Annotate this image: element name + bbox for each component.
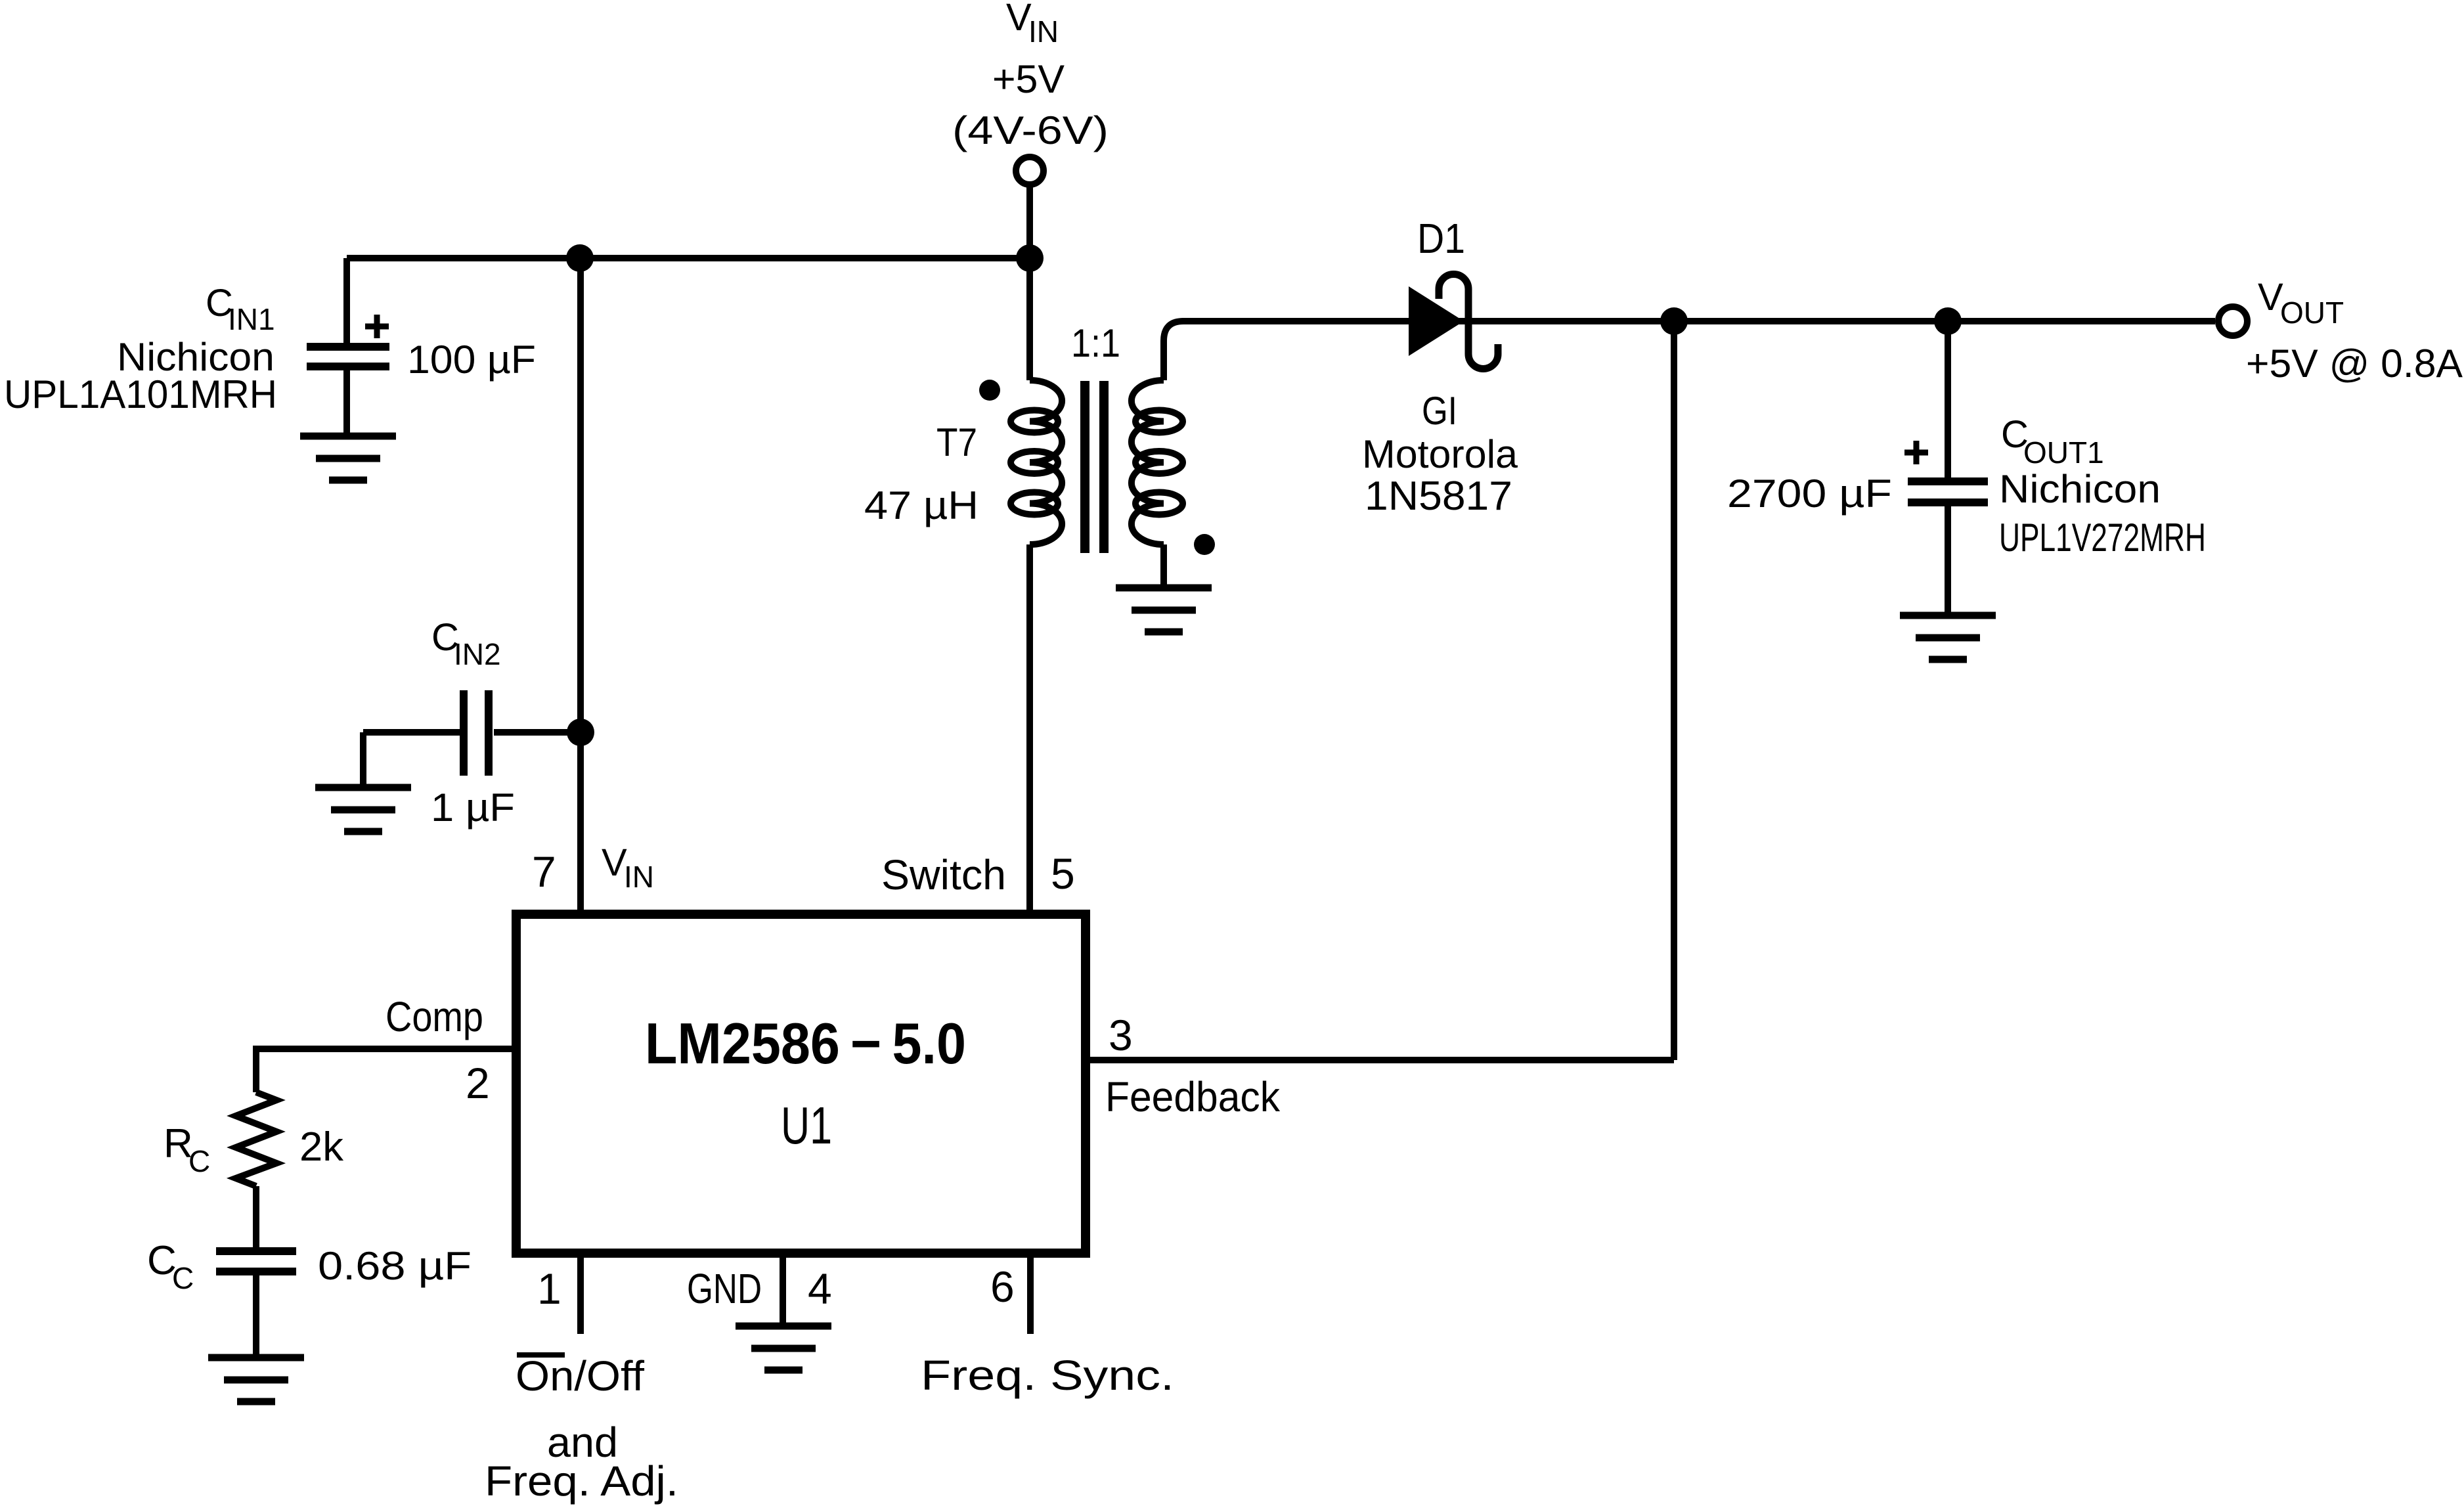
svg-text:Freq. Sync.: Freq. Sync. — [921, 1352, 1174, 1399]
COUT1 plus sign — [1904, 441, 1928, 464]
svg-text:Nichicon: Nichicon — [1999, 467, 2161, 511]
capacitor CIN1 plates — [307, 347, 389, 366]
wire pin 1 stub — [577, 1253, 584, 1334]
node junction dot (CIN2 tap) — [567, 719, 594, 746]
label CIN2 — [431, 616, 501, 671]
ground (below COUT1) — [1900, 615, 1996, 659]
capacitor CIN1 lead — [343, 258, 350, 344]
svg-text:LM2586 − 5.0: LM2586 − 5.0 — [645, 1011, 966, 1076]
ground (below CIN2) — [315, 787, 411, 831]
label RC — [164, 1121, 210, 1178]
svg-text:2700 µF: 2700 µF — [1727, 472, 1892, 516]
wire pin 4 GND stub — [780, 1253, 786, 1323]
svg-text:1 µF: 1 µF — [431, 786, 515, 830]
svg-text:IN2: IN2 — [454, 637, 501, 671]
terminal VIN — [1016, 157, 1044, 185]
wire output rail — [1182, 318, 2215, 324]
svg-text:Motorola: Motorola — [1362, 432, 1518, 476]
wire COUT1 to ground — [1945, 502, 1951, 612]
svg-text:IN: IN — [624, 860, 654, 894]
svg-text:GI: GI — [1422, 389, 1457, 433]
svg-text:3: 3 — [1109, 1011, 1133, 1059]
ground (below CC) — [208, 1358, 304, 1402]
svg-text:0.68 µF: 0.68 µF — [318, 1244, 472, 1288]
svg-text:1: 1 — [537, 1264, 561, 1313]
svg-text:2k: 2k — [299, 1124, 344, 1170]
svg-text:4: 4 — [808, 1264, 832, 1313]
diode D1 triangle — [1409, 286, 1464, 356]
wire VIN terminal to rail and transformer — [1026, 187, 1033, 380]
svg-text:+5V: +5V — [992, 57, 1065, 101]
svg-text:Freq. Adj.: Freq. Adj. — [485, 1457, 678, 1505]
wire pin 6 stub — [1027, 1253, 1034, 1334]
node junction dot (VIN drop) — [1016, 244, 1044, 272]
svg-text:C: C — [172, 1261, 194, 1295]
svg-text:D1: D1 — [1417, 215, 1465, 262]
svg-text:T7: T7 — [936, 420, 977, 464]
svg-text:On/Off: On/Off — [516, 1352, 644, 1400]
wire pin7 vertical (rail to IC) — [577, 258, 584, 914]
label VOUT — [2258, 276, 2344, 330]
svg-text:Comp: Comp — [385, 993, 483, 1040]
label COUT1 — [2001, 413, 2104, 470]
svg-text:UPL1A101MRH: UPL1A101MRH — [4, 372, 277, 416]
capacitor COUT1 plates — [1908, 481, 1988, 502]
CIN1 plus sign — [365, 315, 389, 338]
transformer T7 primary winding — [1011, 380, 1062, 544]
node junction dot (feedback tap) — [1660, 307, 1688, 335]
svg-text:2: 2 — [466, 1059, 490, 1107]
svg-text:IN: IN — [1028, 14, 1059, 49]
wire primary bottom to switch pin 5 — [1026, 544, 1033, 914]
ground (below CIN1) — [300, 436, 396, 480]
capacitor CIN2 wires — [494, 729, 581, 736]
wire comp pin 2 — [256, 1049, 516, 1092]
svg-text:+5V @ 0.8A: +5V @ 0.8A — [2246, 342, 2463, 386]
svg-text:OUT1: OUT1 — [2023, 435, 2104, 470]
svg-text:C: C — [188, 1144, 210, 1178]
resistor RC — [236, 1092, 276, 1186]
capacitor CIN2 plates — [464, 690, 489, 776]
svg-text:UPL1V272MRH: UPL1V272MRH — [1999, 516, 2206, 560]
wire top input rail — [347, 255, 1030, 261]
label VIN pin — [602, 841, 654, 894]
svg-text:Feedback: Feedback — [1105, 1073, 1281, 1120]
transformer T7 secondary winding — [1132, 380, 1183, 544]
ground (IC pin 4) — [736, 1326, 831, 1370]
terminal VOUT — [2218, 307, 2247, 336]
svg-text:GND: GND — [687, 1265, 762, 1312]
svg-text:1:1: 1:1 — [1071, 321, 1120, 365]
capacitor CC plates — [216, 1251, 296, 1272]
phase dot primary — [979, 380, 1000, 401]
svg-text:IN1: IN1 — [228, 302, 275, 336]
ground (below T7 secondary) — [1116, 588, 1212, 632]
diode D1 schottky cathode bar — [1439, 275, 1498, 369]
label CIN1 — [206, 282, 275, 336]
wire CC to ground — [253, 1272, 259, 1354]
node junction dot (CIN1/pin7 branch) — [566, 244, 594, 272]
svg-text:6: 6 — [990, 1262, 1015, 1311]
wire CIN1 to ground — [343, 366, 350, 433]
wire feedback vertical — [1671, 321, 1677, 1060]
wire secondary bottom to ground — [1160, 544, 1167, 585]
IC U1 box — [516, 914, 1086, 1253]
wire secondary top to output rail — [1164, 321, 1183, 380]
label VIN top — [1006, 0, 1059, 49]
svg-text:1N5817: 1N5817 — [1365, 474, 1512, 519]
wire RC to CC — [253, 1186, 259, 1249]
On/Off overline — [517, 1352, 565, 1358]
svg-text:Switch: Switch — [881, 851, 1006, 898]
svg-text:7: 7 — [532, 847, 556, 896]
svg-text:5: 5 — [1051, 849, 1075, 898]
svg-text:(4V-6V): (4V-6V) — [952, 108, 1109, 152]
label CC — [147, 1238, 194, 1295]
wire feedback horizontal to pin 3 — [1086, 1057, 1674, 1063]
transformer T7 core — [1085, 381, 1104, 553]
capacitor COUT1 lead — [1945, 321, 1951, 479]
phase dot secondary — [1194, 534, 1215, 555]
svg-text:U1: U1 — [781, 1096, 832, 1155]
node junction dot (COUT1 tap) — [1934, 307, 1962, 335]
svg-text:47 µH: 47 µH — [864, 483, 979, 527]
svg-text:OUT: OUT — [2280, 296, 2344, 330]
svg-text:100 µF: 100 µF — [407, 338, 536, 382]
